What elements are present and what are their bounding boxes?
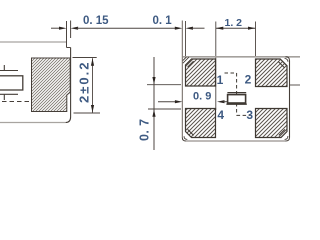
dim 0.1 right arrow	[186, 27, 194, 30]
package corner TR	[286, 57, 290, 61]
package left edge + 0.1 extension	[181, 21, 183, 138]
ceramic wall hatched section	[32, 58, 71, 112]
crystal symbol plate bottom	[226, 103, 246, 105]
dim 2±0.2 top extension line	[73, 57, 97, 59]
svg-text:2: 2	[245, 73, 252, 87]
package corner BL inner arc	[184, 136, 187, 139]
svg-text:0. 9: 0. 9	[193, 91, 211, 103]
dim 2±0.2 arrow up	[91, 58, 94, 65]
dim 2±0.2 bottom extension line	[74, 112, 101, 114]
dim 0.9 left arrow	[175, 100, 183, 103]
package corner BR inner arc	[285, 136, 288, 139]
dim 2±0.2 line	[92, 58, 94, 112]
dim 0.7 arrow up	[152, 109, 155, 117]
package top edge	[183, 56, 300, 58]
svg-text:0. 15: 0. 15	[83, 15, 109, 27]
dim 1.2 line	[216, 27, 256, 29]
dim 0.15 right arrow	[71, 27, 79, 30]
svg-text:0. 1: 0. 1	[153, 15, 173, 27]
dim 0.7 ext top	[147, 84, 181, 86]
dashed centerline	[236, 73, 238, 115]
shoulder step	[67, 47, 71, 49]
svg-text:1. 2: 1. 2	[225, 17, 243, 29]
pad 2 corner band	[278, 62, 284, 68]
svg-text:0. 7: 0. 7	[138, 119, 152, 141]
dim 1.2 left arrow	[216, 27, 224, 30]
base bottom line	[0, 122, 66, 124]
package right edge	[289, 61, 291, 138]
dim 1.2 right arrow	[248, 27, 256, 30]
dim 0.7 line	[153, 57, 155, 150]
right side extension line (cut off)	[290, 84, 300, 86]
svg-text:2±0.2: 2±0.2	[77, 61, 92, 103]
svg-text:1: 1	[217, 73, 224, 87]
dashed connector pad1	[225, 72, 237, 74]
bottom fillet	[66, 117, 71, 123]
crystal blank plate top	[0, 70, 18, 72]
pad 3	[256, 109, 288, 138]
crystal blank lead bottom	[3, 94, 5, 100]
dim 0.15 left tail	[51, 27, 61, 29]
dim 0.9 right tail	[223, 101, 227, 103]
svg-text:3: 3	[246, 108, 253, 122]
dim 0.15 left arrow	[59, 27, 67, 30]
crystal symbol rectangle	[228, 95, 246, 103]
outer wall	[70, 48, 72, 118]
dim 0.9 left tail	[158, 101, 176, 103]
pad1 right extension line	[215, 22, 217, 111]
dim 0.1 right tail	[192, 27, 205, 29]
package bottom edge	[186, 140, 286, 142]
pad 1 corner band	[188, 61, 194, 67]
dim 2±0.2 arrow down	[91, 105, 94, 113]
pad 1	[186, 59, 216, 86]
pad2 left extension line	[255, 22, 257, 58]
lid right edge + 0.15 left extension line	[66, 21, 68, 48]
0.15 right extension line	[70, 21, 72, 39]
crystal blank plate bottom	[0, 93, 18, 95]
crystal blank rectangle	[0, 76, 23, 90]
crystal blank lead top	[3, 65, 5, 71]
svg-text:4: 4	[217, 108, 224, 122]
lid top line	[0, 41, 67, 43]
dim 0.1 left arrow	[175, 27, 183, 30]
package corner BL	[182, 138, 186, 142]
dim 0.7 ext bottom	[148, 108, 181, 110]
pad 3 corner band	[279, 129, 285, 135]
dim 0.7 arrow down	[152, 77, 155, 85]
package corner TL ticks	[183, 57, 189, 63]
package corner TR inner arc	[285, 58, 288, 61]
pad left extension line 0.1	[185, 21, 187, 57]
package corner BR	[286, 138, 290, 142]
shared tail line to 0.1 dim	[77, 27, 176, 29]
dashed lead line to wall	[2, 101, 32, 103]
pad 2	[256, 59, 288, 87]
dashed connector pad3	[237, 114, 251, 116]
pad 4	[186, 109, 216, 138]
dim 0.9 right arrow	[217, 100, 225, 103]
pad 4 corner band	[188, 129, 194, 135]
crystal symbol plate top	[227, 92, 246, 94]
